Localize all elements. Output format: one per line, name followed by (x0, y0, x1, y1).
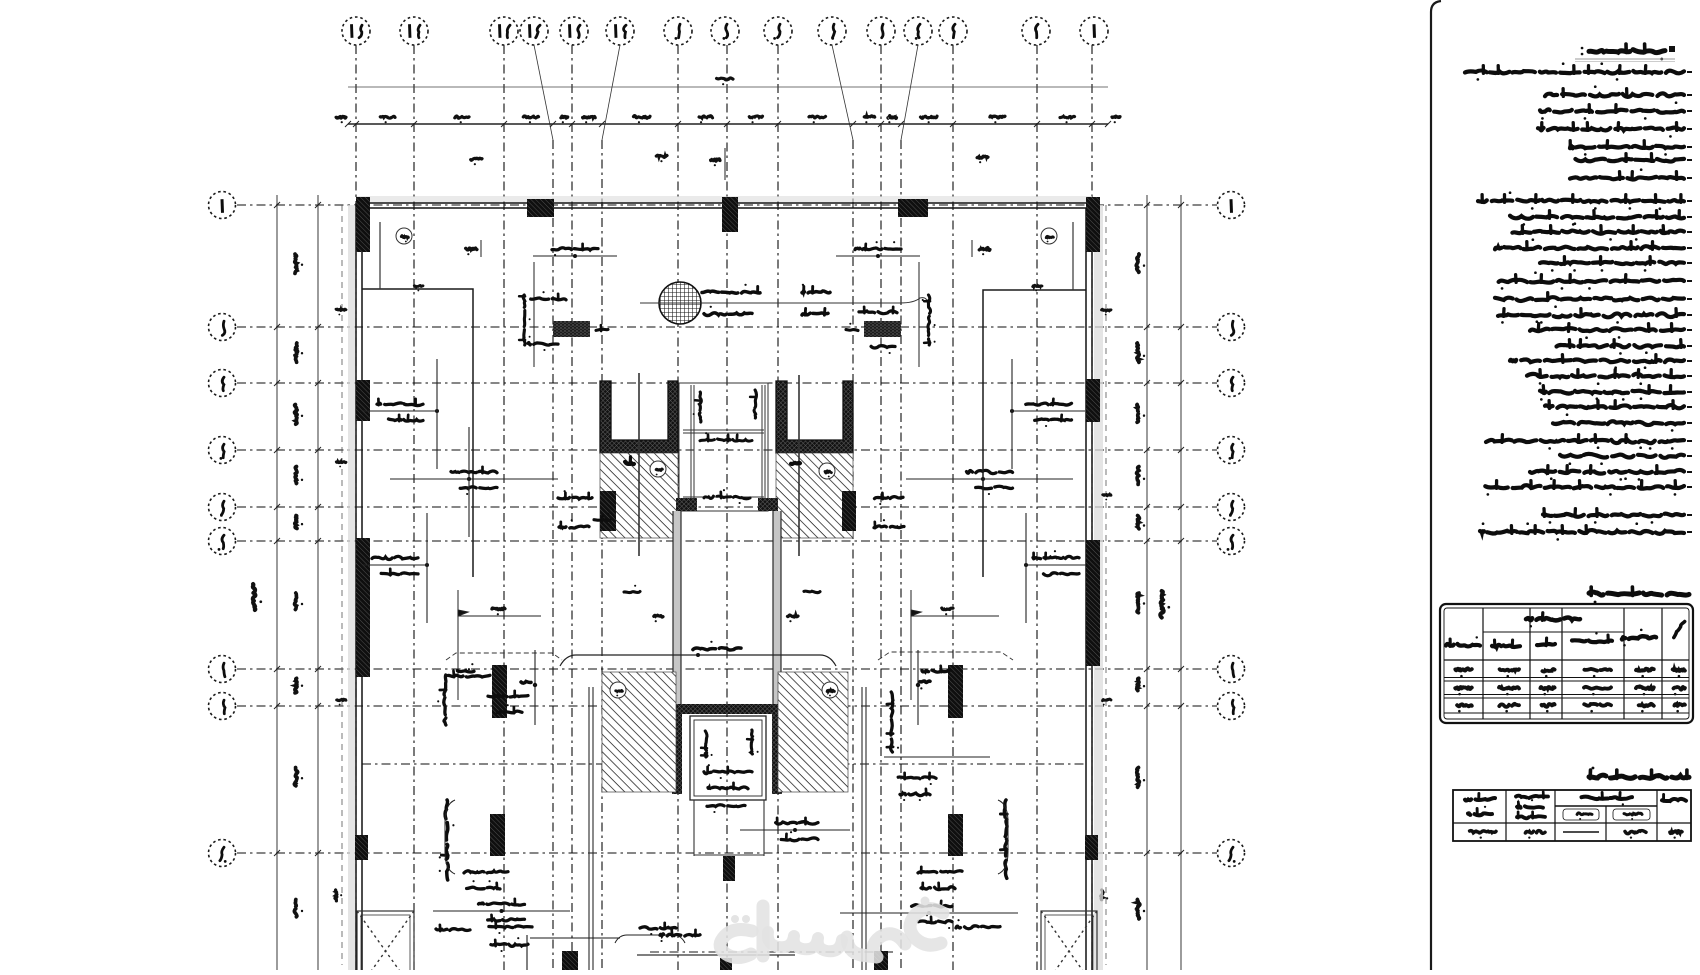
columns (355, 197, 1100, 970)
shaft interior annotations (694, 392, 702, 422)
shaft corner blocks (676, 498, 697, 511)
notes lines (1687, 71, 1692, 73)
stipple beams (553, 321, 590, 337)
watermark (720, 897, 943, 958)
secondary dashed line y764 (342, 205, 1106, 965)
annotation cluster right room low (1026, 564, 1086, 566)
bottom center wide bracket (560, 655, 836, 666)
circled marker 11 left (650, 461, 666, 477)
left bottom rotated annotation column (440, 800, 454, 880)
circled marker 11 right (819, 463, 835, 479)
wall small dims (414, 285, 423, 286)
circled marker 22 left (396, 228, 412, 244)
table beams title (1589, 775, 1689, 778)
elevator car annotations (701, 731, 712, 757)
elevator shaft side walls (674, 511, 681, 704)
annotation cluster room L (363, 410, 437, 412)
bottom beam line (637, 954, 795, 956)
core shear wall U left (600, 381, 678, 453)
bottom center dim (740, 829, 850, 831)
annotation cluster right lower (911, 610, 999, 616)
central shaft outline (679, 383, 768, 511)
X-braced box bottom left (357, 911, 414, 975)
top grid bubbles (342, 17, 1108, 45)
stair hatch upper left (600, 453, 678, 538)
top overall dimension line (348, 86, 1108, 88)
annotation cluster left lower (458, 610, 541, 616)
circled marker 12 lower right (822, 682, 838, 698)
stair number squiggles (625, 462, 634, 464)
partition walls to bottom (589, 687, 866, 970)
annotation cluster room R (1012, 410, 1085, 412)
top wall small dims (471, 158, 482, 160)
left U annotation (533, 262, 535, 367)
core top dim left (533, 255, 617, 257)
interior beam verticals at core (639, 373, 799, 556)
stair hatch lower left (602, 672, 676, 792)
top dimension string line (345, 121, 1111, 127)
he-line column labels right (875, 497, 904, 499)
right bottom rotated annotation column (1000, 800, 1007, 878)
circle column labels (702, 291, 760, 293)
core top dim right (836, 255, 920, 257)
table 2 headers (1662, 799, 1686, 801)
interior beam lines (380, 222, 1073, 290)
right side rotated words (887, 692, 898, 752)
table 2 data row (1670, 831, 1682, 834)
stair hatch lower right (778, 672, 848, 792)
wall shading bands (348, 205, 355, 970)
circular crosshatched column (659, 282, 701, 324)
gridlines horizontal (237, 205, 1217, 853)
left side rotated words (438, 675, 446, 725)
sheet panel border (1431, 1, 1441, 970)
annotation cluster right mid (906, 478, 1073, 480)
table 1 data rows (1455, 668, 1472, 670)
building perimeter walls (356, 203, 1092, 970)
right U annotation (918, 262, 920, 367)
annotation cluster left room low (363, 564, 427, 566)
elevator car box (690, 716, 766, 800)
interior room walls left (362, 289, 1086, 577)
X-braced box bottom right (1041, 911, 1097, 975)
circled marker 22 right (1041, 228, 1057, 244)
table columns title (1589, 592, 1689, 595)
notes title (1669, 46, 1675, 52)
annotation cluster left mid (390, 478, 558, 480)
left letter bubbles (209, 192, 236, 867)
core shear wall U right (776, 381, 853, 453)
table 1 frame (1440, 604, 1693, 723)
level marker right (917, 650, 919, 725)
right letter bubbles (1218, 192, 1245, 867)
left bottom dim line (433, 910, 570, 912)
circled marker 12 lower left (610, 682, 626, 698)
bottom shaft bracket (615, 935, 685, 943)
bottom extra lines (527, 935, 895, 970)
gridlines vertical (356, 45, 1092, 970)
left vertical dimension lines (277, 195, 318, 970)
table 2 frame (1453, 790, 1691, 841)
level marker left (534, 650, 536, 725)
elevator walls dark (672, 704, 782, 794)
stair hatch upper right (776, 453, 853, 538)
right bottom dim line (840, 912, 1018, 914)
he-line column labels left (558, 497, 592, 499)
extra small annotation clusters (488, 696, 528, 697)
table 1 headers (1526, 617, 1580, 620)
right vertical dimension lines (1147, 195, 1181, 970)
shaft below car (694, 800, 764, 856)
